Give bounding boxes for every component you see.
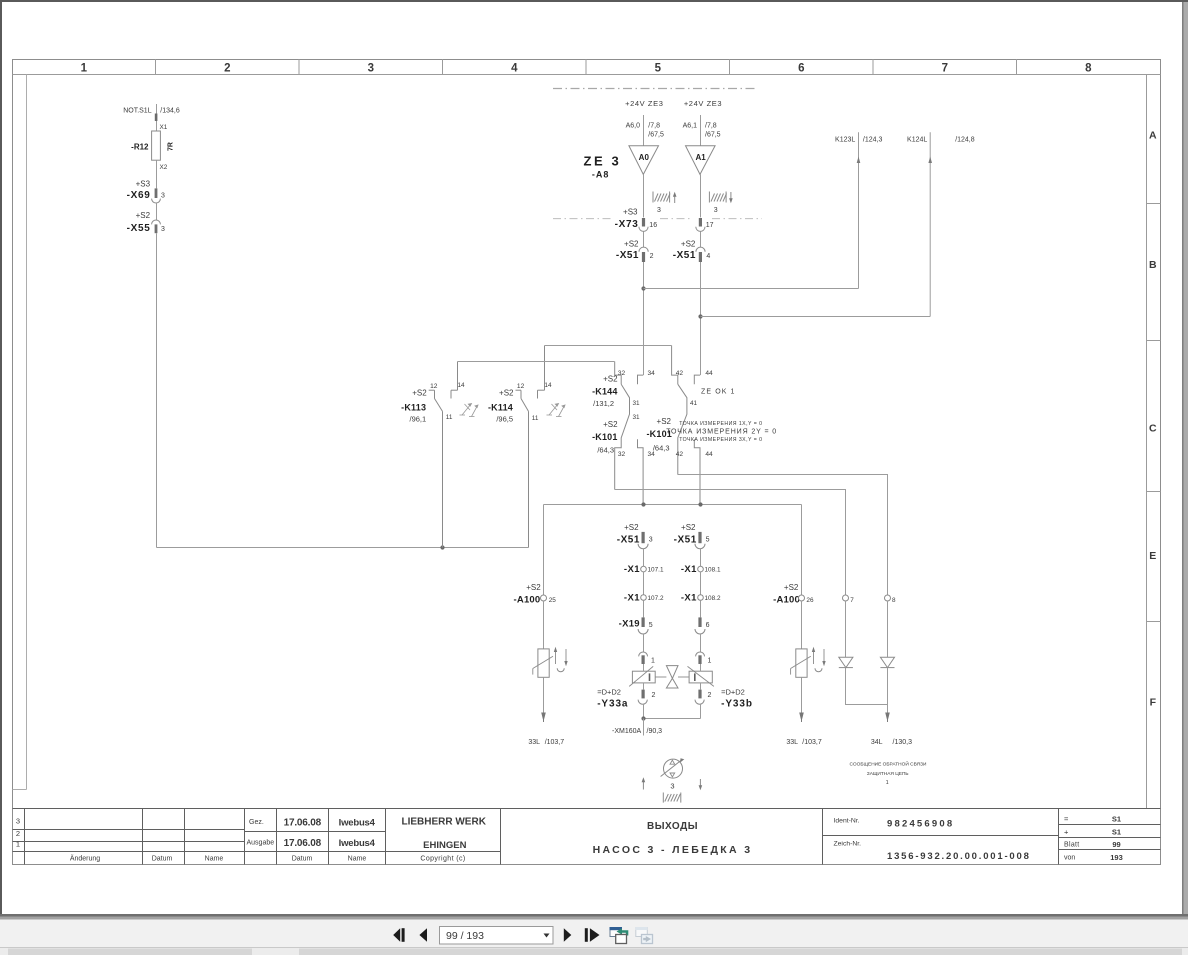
- actuator arrows K113: [460, 404, 479, 417]
- proportional solenoid (feedback) left: [538, 649, 549, 677]
- wire: [700, 600, 702, 617]
- svg-text:Copyright (c): Copyright (c): [420, 856, 465, 863]
- svg-text:16: 16: [649, 222, 657, 229]
- svg-text:K123L: K123L: [835, 137, 855, 144]
- wire: [643, 572, 645, 595]
- svg-text:3: 3: [657, 207, 661, 214]
- svg-text:6: 6: [798, 63, 804, 75]
- wire to K123L: [644, 288, 859, 290]
- wire stub XM160A: [643, 719, 645, 736]
- arrow K123L: [857, 157, 861, 164]
- svg-text:1: 1: [16, 840, 20, 849]
- svg-text:/134,6: /134,6: [160, 108, 180, 115]
- svg-text:107.1: 107.1: [648, 567, 664, 574]
- svg-text:X1: X1: [160, 124, 168, 131]
- arrow K124L: [928, 157, 932, 164]
- svg-text:+S2: +S2: [624, 239, 639, 248]
- svg-text:Name: Name: [348, 856, 367, 863]
- wire to valve Y33a: [643, 634, 645, 652]
- revision numbers 3 2 1: [16, 817, 20, 849]
- svg-text:ВЫХОДЫ: ВЫХОДЫ: [647, 821, 698, 832]
- svg-text:41: 41: [690, 400, 698, 407]
- svg-text:Blatt: Blatt: [1064, 842, 1080, 849]
- svg-text:31: 31: [633, 400, 641, 407]
- wire circle7 to diode1: [845, 601, 847, 657]
- window border left: [0, 0, 2, 914]
- svg-text:11: 11: [532, 415, 539, 422]
- wire circle8 to diode2: [887, 601, 889, 657]
- page number combo box: [440, 927, 554, 945]
- shield symbol A0: [653, 192, 670, 203]
- shield symbol A1: [709, 192, 726, 203]
- wire: [156, 160, 158, 188]
- wire A100-26 branch: [801, 505, 803, 596]
- inner frame left margin line: [26, 75, 28, 790]
- svg-text:-Y33b: -Y33b: [721, 699, 753, 710]
- svg-text:+S2: +S2: [412, 389, 427, 398]
- svg-text:26: 26: [806, 597, 814, 604]
- inner frame right margin line: [1146, 75, 1148, 809]
- svg-text:A0: A0: [639, 153, 650, 162]
- svg-text:1356-932.20.00.001-008: 1356-932.20.00.001-008: [887, 851, 1031, 862]
- status bar: [0, 947, 1188, 955]
- svg-text:Iwebus4: Iwebus4: [339, 838, 376, 849]
- svg-text:+24V ZE3: +24V ZE3: [625, 99, 663, 108]
- svg-text:+S2: +S2: [603, 375, 618, 384]
- svg-text:/103,7: /103,7: [545, 739, 565, 746]
- svg-text:B: B: [1149, 259, 1157, 271]
- arrow down (ground right): [699, 779, 701, 786]
- wire: [643, 600, 645, 617]
- column header bottom line: [13, 74, 1161, 76]
- svg-text:2: 2: [16, 829, 20, 838]
- svg-text:3: 3: [161, 193, 165, 200]
- driver U-A0 (triangle): [629, 146, 659, 175]
- svg-text:7R: 7R: [168, 142, 175, 151]
- svg-text:LIEBHERR WERK: LIEBHERR WERK: [401, 817, 486, 828]
- svg-text:42: 42: [676, 370, 684, 377]
- junction node XM160A: [641, 716, 645, 720]
- toolbar button last page: [585, 928, 588, 942]
- wire 32chain to lamp 7: [615, 490, 846, 596]
- svg-text:-XM160A: -XM160A: [612, 728, 642, 735]
- svg-text:+S2: +S2: [681, 523, 696, 532]
- toolbar button next page: [564, 928, 572, 942]
- svg-text:-X19: -X19: [619, 619, 640, 630]
- junction node at K113 common: [440, 545, 444, 549]
- svg-text:Iwebus4: Iwebus4: [339, 818, 376, 829]
- row letters: [1149, 129, 1157, 708]
- wire to valve Y33b: [700, 634, 702, 652]
- svg-text:2: 2: [224, 63, 230, 75]
- lamp/input circle 7: [843, 595, 849, 601]
- solenoid coil Y33a: [632, 671, 655, 683]
- svg-text:X2: X2: [160, 164, 168, 171]
- ZE3 unit boundary dash-dot bottom (segments): [553, 218, 762, 220]
- wire K114.14 to K144.42: [545, 345, 672, 347]
- svg-text:8: 8: [892, 597, 896, 604]
- svg-text:42: 42: [676, 451, 684, 458]
- wire to proportional solenoid right: [801, 601, 803, 649]
- svg-text:2: 2: [650, 253, 654, 260]
- svg-text:/90,3: /90,3: [647, 728, 663, 735]
- svg-text:+S2: +S2: [681, 239, 696, 248]
- svg-text:6: 6: [706, 622, 710, 629]
- contact K114 (changeover): [516, 346, 545, 548]
- icon next view (disabled): [636, 927, 653, 944]
- svg-text:/64,3: /64,3: [653, 444, 670, 453]
- wire diode1 down and join: [846, 668, 888, 705]
- svg-text:-X1: -X1: [624, 592, 640, 603]
- svg-text:C: C: [1149, 422, 1157, 434]
- svg-text:34: 34: [648, 370, 656, 377]
- resistor R1 (-R12): [152, 131, 161, 160]
- svg-text:8: 8: [1085, 63, 1092, 75]
- svg-text:44: 44: [705, 451, 713, 458]
- diode D2: [880, 657, 894, 667]
- svg-text:25: 25: [549, 597, 557, 604]
- svg-text:НАСОС 3 - ЛЕБЕДКА 3: НАСОС 3 - ЛЕБЕДКА 3: [593, 844, 753, 856]
- svg-text:-K144: -K144: [592, 386, 618, 396]
- svg-text:32: 32: [618, 370, 626, 377]
- wire A0 top: [643, 115, 645, 146]
- svg-text:-X51: -X51: [616, 250, 639, 261]
- wire valve returns join: [643, 704, 645, 719]
- svg-text:/67,5: /67,5: [648, 132, 664, 139]
- svg-text:33L: 33L: [528, 739, 540, 746]
- column dividers: [156, 59, 1017, 74]
- svg-text:-A8: -A8: [592, 170, 610, 180]
- svg-text:982456908: 982456908: [887, 819, 954, 830]
- wire + arrow to 33L right: [801, 677, 803, 714]
- svg-text:44: 44: [705, 370, 713, 377]
- wire left chain top: [156, 104, 158, 131]
- svg-text:ZE 3: ZE 3: [584, 154, 622, 169]
- svg-text:7: 7: [850, 597, 854, 604]
- svg-text:1: 1: [886, 780, 889, 786]
- valve plug Y33a pin 1: [639, 652, 648, 656]
- contact chain K144.44/K101.44: [694, 375, 700, 504]
- svg-text:7: 7: [942, 63, 948, 75]
- svg-text:-X51: -X51: [673, 250, 696, 261]
- solenoid coil Y33b: [689, 671, 712, 683]
- svg-text:32: 32: [618, 451, 626, 458]
- svg-text:-X51: -X51: [674, 535, 697, 546]
- svg-text:3: 3: [161, 226, 165, 233]
- svg-text:-Y33a: -Y33a: [597, 699, 628, 710]
- connector -X73 pin 17: [699, 218, 702, 227]
- arrow down (A1 shield): [730, 192, 732, 199]
- left margin bottom tick: [13, 789, 27, 791]
- svg-text:+S3: +S3: [623, 207, 638, 216]
- wire: [700, 572, 702, 595]
- svg-text:-A100: -A100: [514, 595, 541, 606]
- svg-text:-K101: -K101: [592, 432, 618, 442]
- svg-text:+S2: +S2: [784, 583, 799, 592]
- svg-text:NOT.S1L: NOT.S1L: [123, 108, 152, 115]
- wire A1 down to contact: [700, 262, 702, 375]
- svg-text:/7,8: /7,8: [648, 122, 660, 129]
- svg-text:Änderung: Änderung: [70, 855, 100, 863]
- svg-text:-K113: -K113: [401, 403, 426, 413]
- contact chain K144.34/K101.34: [638, 375, 644, 504]
- valve Y33a pin 2: [642, 690, 645, 699]
- svg-text:-X69: -X69: [127, 190, 151, 201]
- svg-text:31: 31: [633, 414, 641, 421]
- wire A1 below triangle: [700, 174, 702, 217]
- svg-text:E: E: [1149, 550, 1156, 562]
- svg-text:17.06.08: 17.06.08: [284, 838, 322, 849]
- svg-text:=D+D2: =D+D2: [721, 688, 745, 697]
- svg-text:+S2: +S2: [136, 211, 151, 220]
- svg-text:99 / 193: 99 / 193: [446, 930, 484, 942]
- proportional solenoid (feedback) right: [796, 649, 807, 677]
- wire to K124L: [701, 316, 931, 318]
- lamp/input circle 8: [885, 595, 891, 601]
- svg-text:/124,3: /124,3: [863, 137, 883, 144]
- wire X51-5 down: [700, 549, 702, 567]
- svg-text:34L: 34L: [871, 739, 883, 746]
- svg-text:99: 99: [1112, 840, 1120, 849]
- junction node 44/X51-5: [698, 502, 702, 506]
- wire + arrow to 33L left: [543, 677, 545, 714]
- title block small labels: [70, 855, 466, 863]
- svg-text:F: F: [1150, 696, 1157, 708]
- toolbar button previous page: [419, 928, 427, 942]
- svg-text:Ident-Nr.: Ident-Nr.: [834, 818, 860, 825]
- driver U-A1 (triangle): [686, 146, 716, 175]
- svg-text:+S3: +S3: [136, 180, 151, 189]
- svg-text:ТОЧКА ИЗМЕРЕНИЯ 1X,Y = 0: ТОЧКА ИЗМЕРЕНИЯ 1X,Y = 0: [679, 421, 762, 427]
- wire X51-3 down: [643, 549, 645, 567]
- svg-text:A1: A1: [695, 153, 706, 162]
- svg-text:Zeich-Nr.: Zeich-Nr.: [834, 841, 862, 848]
- svg-text:3: 3: [368, 63, 374, 75]
- svg-text:/96,5: /96,5: [496, 415, 513, 424]
- wire to proportional solenoid left: [543, 601, 545, 649]
- svg-text:+S2: +S2: [624, 523, 639, 532]
- column numbers: [81, 63, 1093, 75]
- svg-text:S1: S1: [1112, 827, 1121, 836]
- svg-text:1: 1: [651, 657, 655, 664]
- wire diode2 down + arrow 34L: [887, 668, 889, 714]
- row letter dividers: [1147, 204, 1161, 622]
- contact chain K144.42/K101.42: [672, 346, 687, 475]
- svg-text:+: +: [1064, 827, 1069, 836]
- svg-text:108.1: 108.1: [705, 567, 721, 574]
- svg-text:17: 17: [706, 222, 714, 229]
- svg-text:Datum: Datum: [292, 856, 313, 863]
- svg-text:-X73: -X73: [615, 219, 639, 230]
- svg-text:3: 3: [714, 207, 718, 214]
- svg-text:5: 5: [655, 63, 662, 75]
- svg-text:3: 3: [670, 782, 674, 791]
- svg-text:-A100: -A100: [773, 595, 800, 606]
- bottom edge of page / toolbar top band: [0, 914, 1188, 917]
- svg-text:2: 2: [708, 692, 712, 699]
- wire link tick: [155, 114, 158, 122]
- svg-text:/131,2: /131,2: [593, 399, 614, 408]
- svg-text:107.2: 107.2: [648, 595, 664, 602]
- svg-text:Gez.: Gez.: [249, 819, 264, 826]
- wire A0 X73-X51: [643, 232, 645, 248]
- toolbar button first page: [393, 928, 400, 942]
- svg-text:=D+D2: =D+D2: [597, 688, 621, 697]
- wire 42chain to lamp 8: [678, 475, 888, 596]
- right scrollbar strip: [1183, 2, 1188, 914]
- junction node A1/K124L: [698, 314, 702, 318]
- svg-text:/7,8: /7,8: [705, 122, 717, 129]
- svg-text:-K114: -K114: [488, 403, 513, 413]
- ZE3 unit boundary dash-dot top: [553, 88, 755, 90]
- svg-text:Ausgabe: Ausgabe: [247, 840, 275, 847]
- svg-text:ZE OK 1: ZE OK 1: [701, 388, 736, 395]
- svg-text:193: 193: [1110, 853, 1123, 862]
- svg-text:1: 1: [708, 657, 712, 664]
- svg-text:4: 4: [706, 253, 710, 260]
- svg-text:-R12: -R12: [131, 143, 149, 152]
- svg-text:4: 4: [511, 63, 518, 75]
- svg-text:33L: 33L: [786, 739, 798, 746]
- wire A0 below triangle: [643, 174, 645, 217]
- svg-text:14: 14: [458, 382, 466, 389]
- svg-text:-X55: -X55: [127, 223, 151, 234]
- svg-text:+S2: +S2: [499, 389, 514, 398]
- hydraulic valve (bowtie): [666, 666, 678, 679]
- wire bus horizontal: [157, 547, 529, 549]
- svg-text:K124L: K124L: [907, 137, 927, 144]
- svg-text:12: 12: [430, 383, 438, 390]
- svg-text:11: 11: [446, 414, 453, 421]
- svg-text:-X1: -X1: [624, 564, 640, 575]
- svg-text:1: 1: [81, 63, 88, 75]
- wire A100-25 branch: [543, 505, 545, 596]
- wire A1 X73-X51: [700, 232, 702, 248]
- title block lines: [13, 809, 1161, 865]
- svg-text:/96,1: /96,1: [410, 415, 427, 424]
- svg-text:S1: S1: [1112, 815, 1121, 824]
- svg-text:-X51: -X51: [617, 535, 640, 546]
- icon previous view: [610, 927, 629, 944]
- shield symbol (ground): [663, 793, 681, 803]
- svg-text:5: 5: [649, 622, 653, 629]
- contact K113 (changeover): [429, 362, 458, 548]
- svg-text:von: von: [1064, 855, 1075, 862]
- svg-text:3: 3: [16, 817, 20, 826]
- wire A1 top: [700, 115, 702, 146]
- svg-text:2: 2: [652, 692, 656, 699]
- svg-text:12: 12: [517, 383, 525, 390]
- svg-text:-X1: -X1: [681, 592, 697, 603]
- arrow up (ground left): [642, 782, 644, 790]
- toolbar background: [0, 920, 1188, 948]
- svg-text:ТОЧКА ИЗМЕРЕНИЯ 2Y = 0: ТОЧКА ИЗМЕРЕНИЯ 2Y = 0: [666, 429, 777, 436]
- valve plug Y33b pin 1: [696, 652, 705, 656]
- wire: [156, 203, 158, 220]
- svg-text:3: 3: [649, 537, 653, 544]
- wire A0 down to contact: [643, 262, 645, 375]
- arrow up (A0 shield): [674, 196, 676, 203]
- svg-text:ТОЧКА ИЗМЕРЕНИЯ 3X,Y = 0: ТОЧКА ИЗМЕРЕНИЯ 3X,Y = 0: [679, 437, 762, 443]
- svg-text:/64,3: /64,3: [597, 446, 614, 455]
- svg-text:Datum: Datum: [152, 856, 173, 863]
- svg-text:+S2: +S2: [603, 420, 618, 429]
- distribution wire y=504.6: [544, 504, 802, 506]
- svg-text:/124,8: /124,8: [955, 137, 975, 144]
- svg-text:108.2: 108.2: [705, 595, 721, 602]
- svg-text:+24V ZE3: +24V ZE3: [684, 99, 722, 108]
- diode D1: [839, 657, 853, 667]
- svg-text:A: A: [1149, 129, 1157, 141]
- svg-text:17.06.08: 17.06.08: [284, 818, 322, 829]
- svg-text:+S2: +S2: [526, 583, 541, 592]
- svg-text:/130,3: /130,3: [893, 739, 913, 746]
- svg-text:5: 5: [706, 537, 710, 544]
- svg-text:+S2: +S2: [657, 417, 672, 426]
- wire down to bus: [156, 233, 158, 547]
- svg-text:/67,5: /67,5: [705, 132, 721, 139]
- junction node 34/X51-3: [641, 502, 645, 506]
- window border top: [0, 0, 1188, 2]
- connector -X19 pin 6: [698, 617, 701, 627]
- wire K113.14 to K144.32: [458, 361, 615, 363]
- contact chain K144.32/K101.32: [615, 362, 630, 490]
- svg-text:A6,0: A6,0: [626, 122, 641, 129]
- svg-text:/103,7: /103,7: [802, 739, 822, 746]
- svg-text:ЗАЩИТНАЯ ЦЕПЬ: ЗАЩИТНАЯ ЦЕПЬ: [867, 771, 909, 777]
- svg-text:A6,1: A6,1: [683, 122, 698, 129]
- svg-text:Name: Name: [205, 856, 224, 863]
- junction node A0/K123L: [641, 286, 645, 290]
- actuator arrows K114: [547, 404, 566, 417]
- arrows + socket left: [555, 651, 557, 664]
- svg-text:EHINGEN: EHINGEN: [423, 840, 466, 851]
- svg-text:-X1: -X1: [681, 564, 697, 575]
- arrows + socket right: [813, 651, 815, 664]
- ground plug symbol circle: [664, 759, 683, 778]
- svg-text:14: 14: [544, 382, 552, 389]
- svg-text:=: =: [1064, 815, 1069, 824]
- valve Y33b pin 2: [698, 690, 701, 699]
